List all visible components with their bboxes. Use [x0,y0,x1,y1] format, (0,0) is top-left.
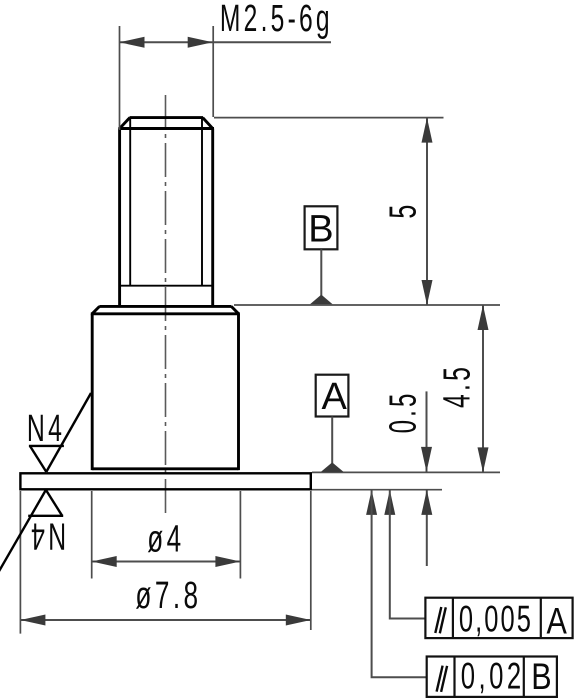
leader arrow to frame A [384,490,395,515]
body right side [237,314,240,470]
datum A box [316,375,349,417]
arrow left M2.5 [120,37,145,48]
surface finish symbol lower: long stroke [0,490,46,573]
arrow down 0.5 [421,447,432,472]
datum B box [305,206,338,249]
extension line top (for 5 dim) [214,117,444,119]
extension line ø7.8 left [19,491,21,634]
svg-text:M2.5-6g: M2.5-6g [220,0,333,40]
tolerance frame A divider 1 [452,598,454,638]
tolerance frame B box [427,657,557,697]
svg-text:B: B [531,656,551,697]
extension line left of M2.5 dim [119,26,121,130]
body top chamfer left [92,306,99,313]
svg-text:B: B [308,209,333,251]
svg-text:0.5: 0.5 [381,390,424,433]
arrow up 5 [422,118,433,143]
extension line ø4 right [239,491,241,579]
svg-text:5: 5 [381,205,423,219]
flange outline [20,473,310,489]
body top edge line [99,305,231,308]
arrow left ø4 [92,556,117,567]
surface finish lower: short leg [46,490,62,516]
extension line right of M2.5 dim [212,26,214,117]
thread top chamfer right [203,118,213,129]
extension line flange bottom [312,489,442,491]
dimension line 4.5 [482,305,484,472]
parallelism symbol frame B [437,666,443,692]
datum A stem [331,417,333,465]
svg-text:ø7.8: ø7.8 [135,573,201,616]
arrow right M2.5 [188,37,213,48]
thread runout line [120,285,213,287]
dimension 0.5 lower line [426,490,428,566]
extension line ø4 left [91,491,93,579]
datum B stem [320,249,322,296]
dimension line 5 [426,118,428,305]
thread minor diameter left line [129,119,131,286]
leader line to frame A [390,491,426,619]
surface finish symbol upper: long stroke [46,393,91,472]
svg-text:ø4: ø4 [147,516,184,559]
thread outer right side [211,129,214,306]
dimension 0.5 upper line [426,391,428,472]
arrow left ø7.8 [20,615,45,626]
body left side [91,314,94,470]
body top chamfer right [231,306,238,313]
arrow down 5 [422,280,433,305]
arrow right ø7.8 [286,615,311,626]
leader line to frame B [372,491,427,678]
dimension line ø4 [92,561,241,563]
svg-text:0,005: 0,005 [459,598,533,640]
extension line shoulder (for 5 / 4.5 dims) [234,304,500,306]
surface finish lower: bar [28,515,63,517]
surface finish upper: bar [29,445,64,447]
svg-text:N4: N4 [28,515,66,558]
svg-text:N4: N4 [27,407,65,450]
arrow up 0.5 [421,490,432,515]
dimension line ø7.8 [20,619,310,621]
surface finish upper: short leg [30,446,46,472]
tolerance frame B divider 1 [453,657,455,697]
dimension line M2.5-6g [120,41,332,43]
body chamfer bottom edge [91,312,240,315]
centerline (vertical axis) [165,95,167,513]
extension line ø7.8 right [310,491,312,630]
arrow down 4.5 [478,447,489,472]
tolerance frame A divider 2 [540,598,542,638]
parallelism symbol frame A [435,607,441,633]
datum A triangle [321,462,344,472]
svg-text:0,02: 0,02 [461,655,525,697]
svg-text:4.5: 4.5 [435,364,478,408]
svg-text:A: A [322,376,348,418]
thread crest top line [130,116,204,119]
datum B triangle [310,295,333,305]
arrow up 4.5 [478,305,489,330]
thread top chamfer left [120,118,130,129]
tolerance frame B divider 2 [523,657,525,697]
thread outer left side [118,129,121,306]
chamfer bottom edge line [118,127,214,130]
extension line flange top (for 0.5 / 4.5 / datum A) [312,471,500,473]
thread minor diameter right line [201,119,203,286]
leader arrow to frame B [366,490,377,515]
body bottom edge line [92,467,238,470]
tolerance frame A box [425,598,572,638]
svg-text:A: A [547,601,568,642]
arrow right ø4 [215,556,240,567]
